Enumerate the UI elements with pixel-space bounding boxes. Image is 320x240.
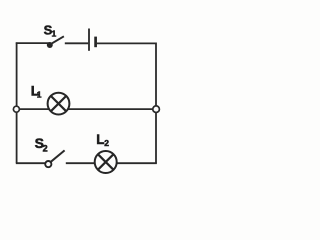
svg-text:2: 2 <box>43 143 48 153</box>
svg-text:1: 1 <box>52 28 57 38</box>
wire left rail <box>16 42 18 162</box>
lamp L2 cross stroke 2 <box>98 154 113 169</box>
battery short plate (negative) <box>94 37 97 48</box>
label L2 <box>96 132 109 148</box>
switch S2 <box>45 150 64 167</box>
label S1 <box>44 22 57 38</box>
lamp L1 <box>48 93 70 115</box>
svg-text:2: 2 <box>104 138 109 148</box>
label L1 <box>31 82 42 99</box>
switch S2 contact circle <box>45 161 51 167</box>
node right junction <box>153 106 160 113</box>
lamp L2 circle <box>95 151 117 173</box>
label S2 <box>35 135 48 154</box>
node left junction <box>13 106 19 112</box>
wire right rail <box>155 43 157 164</box>
wire middle rail <box>17 108 156 110</box>
lamp L1 cross stroke 2 <box>51 96 66 111</box>
switch S1 lever <box>50 36 64 44</box>
wire bottom rail left segment (corner to S2) <box>16 162 46 164</box>
lamp L2 <box>95 151 117 173</box>
wire top rail left segment (corner to S1) <box>16 42 50 44</box>
switch S1 <box>47 36 64 48</box>
lamp L1 circle <box>48 93 70 115</box>
switch S2 lever <box>51 150 65 161</box>
wire top rail right segment (battery to corner) <box>97 42 156 44</box>
lamp L1 cross stroke 1 <box>51 96 66 111</box>
wire bottom rail right segment (S2 to corner) <box>66 162 157 164</box>
battery long plate (positive) <box>88 29 90 51</box>
wire top rail middle segment (S1 to battery) <box>65 42 88 44</box>
svg-text:1: 1 <box>37 89 42 99</box>
battery B1 <box>89 29 96 51</box>
lamp L2 cross stroke 1 <box>98 154 113 169</box>
switch S1 contact dot <box>47 42 53 48</box>
